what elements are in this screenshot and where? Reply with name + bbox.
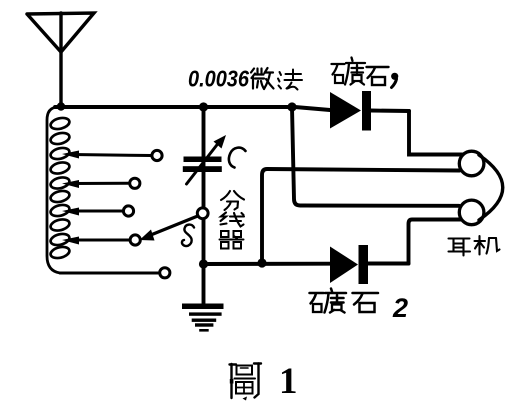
label 器 (220, 231, 244, 249)
node junction antenna (57, 102, 65, 110)
wire diode2 row (204, 262, 331, 266)
headphones band (479, 155, 503, 220)
label 礦 (bottom) (310, 289, 347, 313)
label 耳 (449, 239, 471, 256)
svg-text:1: 1 (279, 361, 298, 402)
node junction at x262 (257, 258, 266, 267)
ground (182, 304, 224, 332)
antenna (27, 13, 94, 106)
switch pivot (197, 208, 208, 219)
node junction at ground line (199, 259, 208, 268)
node junction top at branch B (287, 102, 296, 111)
label 分 (221, 191, 244, 210)
headphones earpiece bottom (459, 200, 484, 225)
label 法 (278, 70, 302, 90)
variable capacitor C plates (183, 157, 222, 173)
diode D1 (crystal detector 1) (330, 91, 409, 131)
label 石 (top) (367, 67, 389, 85)
inductor L coil body (47, 107, 71, 273)
switch arm (140, 216, 200, 241)
caption 圖 (230, 364, 262, 401)
coil tap 3 (62, 206, 134, 216)
headphones earpiece top (459, 151, 484, 176)
wire diode1 to top earpiece (409, 111, 463, 155)
label 礦 (top) (332, 58, 366, 85)
wire vertical main (cap/switch/ground line) (202, 107, 206, 304)
wire upper earpiece return (262, 169, 460, 260)
coil bottom tap (60, 268, 170, 278)
coil tap 2 (62, 178, 140, 188)
coil tap 1 (62, 150, 162, 160)
label subscript 1 comma (391, 73, 398, 88)
coil tap 4 (62, 235, 140, 245)
wire lower earpiece to diode2 branch (409, 220, 463, 264)
node junction top at capacitor (199, 102, 208, 111)
label C (229, 148, 246, 168)
label S (182, 225, 194, 246)
svg-text:0.0036: 0.0036 (188, 66, 250, 92)
wire branch B to lower earpiece (292, 107, 459, 206)
label 微 (251, 68, 274, 89)
label 石 (bottom) (353, 293, 379, 312)
wire top horizontal (55, 107, 330, 110)
label 机 (475, 236, 500, 255)
variable capacitor arrow (187, 135, 227, 184)
svg-text:2: 2 (392, 293, 408, 323)
diode D2 (crystal detector 2) (330, 245, 368, 284)
label 线 (221, 213, 245, 227)
